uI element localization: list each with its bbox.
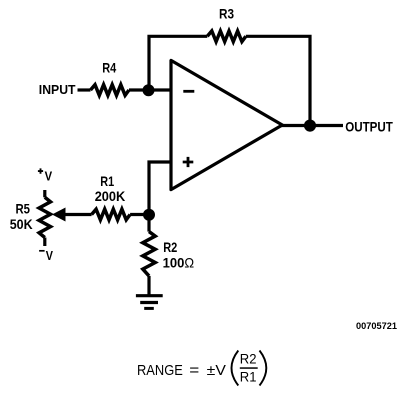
wire R4 to op-amp minus input [129, 88, 171, 91]
node output junction dot [304, 120, 316, 132]
svg-text:50K: 50K [10, 216, 33, 232]
wire R2 to ground [147, 276, 150, 295]
op-amp minus sign [183, 90, 194, 93]
svg-text:100Ω: 100Ω [163, 255, 195, 271]
op-amp U1 [171, 60, 282, 189]
wire R1 to node B [130, 213, 149, 216]
resistor R2 [143, 232, 155, 276]
svg-text:200K: 200K [95, 188, 126, 204]
op-amp plus sign [183, 157, 194, 167]
svg-text:=: = [189, 362, 199, 379]
potentiometer R5 [39, 197, 50, 237]
ground [136, 296, 163, 309]
label +V [38, 168, 43, 173]
svg-text:RANGE: RANGE [137, 362, 183, 379]
potentiometer wiper arrow [52, 208, 66, 222]
node A junction dot [143, 84, 155, 96]
wire feedback left vertical [149, 36, 207, 90]
node B junction dot [143, 209, 155, 221]
wire wiper to R1 [64, 213, 92, 216]
svg-text:R2: R2 [240, 351, 257, 367]
resistor R1 [92, 209, 131, 220]
wire plus input bend [149, 162, 171, 215]
wire R5 bottom stub [43, 238, 46, 247]
svg-text:±V: ±V [207, 362, 226, 379]
wire node B down to R2 [147, 213, 150, 232]
formula RANGE = +/-V (R2/R1) [137, 351, 266, 386]
svg-text:V: V [45, 169, 53, 184]
resistor R3 [207, 31, 246, 42]
wire op-amp output [281, 124, 343, 127]
svg-text:R2: R2 [163, 239, 177, 255]
svg-text:00705721: 00705721 [356, 321, 397, 331]
svg-text:R4: R4 [102, 59, 116, 75]
svg-text:OUTPUT: OUTPUT [345, 118, 393, 134]
svg-text:V: V [46, 248, 53, 263]
resistor R4 [91, 85, 130, 96]
wire +V stub [43, 190, 46, 197]
svg-text:R5: R5 [16, 201, 31, 217]
wire feedback top right and down to output node [246, 36, 310, 125]
wire input stub [78, 88, 91, 91]
svg-text:R3: R3 [219, 6, 234, 22]
svg-text:INPUT: INPUT [39, 82, 76, 97]
svg-text:R1: R1 [240, 369, 257, 385]
svg-text:R1: R1 [100, 173, 114, 189]
label -V [39, 250, 45, 252]
